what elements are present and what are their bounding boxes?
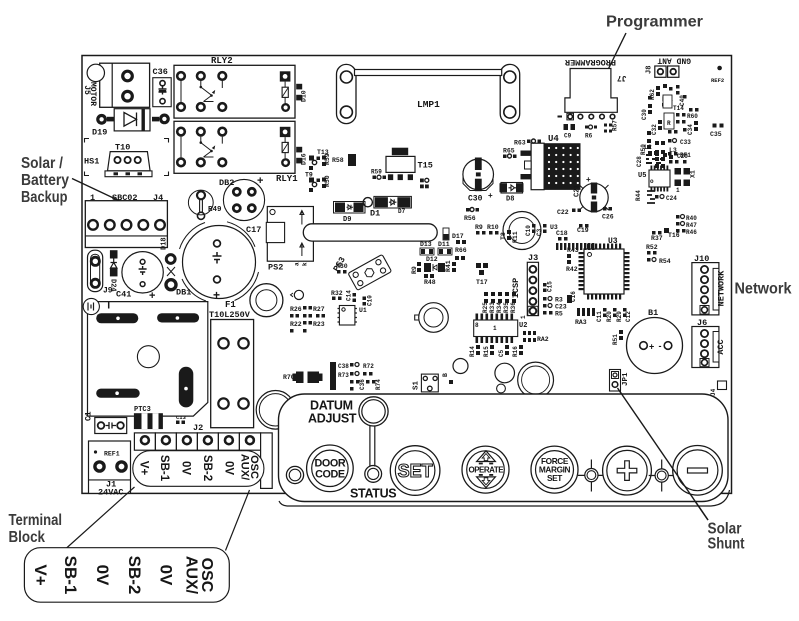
connector J6 ACC [692, 318, 726, 368]
svg-text:R36: R36 [510, 302, 517, 313]
svg-text:C13: C13 [176, 414, 187, 421]
svg-text:LMP1: LMP1 [417, 99, 440, 110]
svg-text:C10: C10 [367, 295, 374, 306]
svg-text:R46: R46 [686, 229, 697, 236]
svg-text:C30: C30 [468, 195, 483, 204]
capacitor C18 [363, 295, 374, 306]
capacitor C26 [602, 207, 614, 221]
svg-text:JP1: JP1 [622, 372, 630, 386]
diode D10 [296, 84, 307, 102]
diode D8 [500, 183, 524, 204]
svg-text:ADJUST: ADJUST [308, 412, 357, 426]
misc pads rf extra [647, 95, 699, 164]
svg-text:C32: C32 [651, 124, 658, 135]
svg-text:D18: D18 [161, 237, 169, 250]
resistors R40 R47 R46 [676, 215, 697, 237]
IC U5 [638, 166, 670, 192]
leader line solar shunt over panel [618, 388, 709, 520]
svg-text:T14: T14 [673, 105, 684, 112]
connector J7 PROGRAMMER [558, 57, 627, 120]
svg-text:R49: R49 [208, 206, 222, 214]
diode bridge DB2 [219, 175, 265, 221]
BUTTON PANEL [279, 394, 730, 506]
svg-text:NETWORK: NETWORK [717, 270, 727, 307]
svg-text:R50: R50 [324, 175, 331, 187]
resistor R6 [585, 125, 597, 140]
capacitor C13 [176, 414, 187, 424]
terminal block label strip (on board) [133, 451, 264, 487]
diode D24 [109, 250, 118, 291]
svg-text:1: 1 [520, 315, 527, 319]
relay RLY1 [174, 121, 298, 184]
svg-text:R66: R66 [455, 247, 467, 254]
svg-text:R74: R74 [375, 379, 382, 390]
svg-text:C11: C11 [596, 311, 603, 322]
svg-text:R54: R54 [659, 258, 671, 265]
svg-text:D8: D8 [506, 196, 514, 204]
switch S1 [413, 374, 439, 392]
svg-text:C3: C3 [536, 228, 543, 236]
capacitor C31 [574, 175, 609, 213]
svg-text:SET: SET [547, 473, 562, 483]
svg-text:T15: T15 [418, 161, 433, 171]
svg-text:SET: SET [398, 461, 433, 481]
inductors L2 L3 C20 C28 [636, 144, 688, 167]
svg-text:C20: C20 [677, 153, 688, 160]
connector J9 [88, 250, 113, 295]
button FORCE MARGIN SET [531, 446, 578, 493]
svg-text:DATUM: DATUM [310, 399, 353, 413]
svg-text:U1: U1 [359, 307, 367, 314]
buzzer B1 [627, 308, 683, 374]
connector J10 NETWORK [692, 254, 727, 315]
button DOOR CODE [286, 445, 353, 492]
svg-text:C9: C9 [564, 133, 572, 140]
svg-text:C1: C1 [85, 411, 94, 421]
svg-text:R3: R3 [555, 297, 563, 304]
svg-text:V+: V+ [31, 564, 50, 585]
svg-text:RLY2: RLY2 [211, 56, 233, 66]
connector J5 MOTOR [82, 63, 150, 107]
capacitor C9 [564, 124, 576, 140]
svg-text:D9: D9 [343, 216, 351, 224]
resistor R70 [283, 372, 323, 384]
svg-text:R32: R32 [331, 290, 343, 297]
capacitor C22 [557, 209, 581, 217]
resistor R52 R54 [646, 244, 671, 265]
svg-text:Shunt: Shunt [708, 536, 745, 553]
resistor R58 [332, 154, 356, 166]
svg-text:C30: C30 [641, 109, 648, 120]
svg-text:OPERATE: OPERATE [469, 465, 505, 474]
relay RLY2 [174, 56, 295, 118]
svg-text:D19: D19 [92, 128, 107, 138]
svg-text:a: a [294, 262, 301, 266]
capacitor C17 [180, 222, 262, 302]
capacitor behind panel left edge [256, 391, 295, 430]
svg-text:D10: D10 [301, 90, 308, 102]
power supply PS2 [266, 207, 437, 273]
lamp bracket LMP1 [337, 64, 520, 123]
svg-text:C22: C22 [557, 209, 569, 216]
svg-text:+: + [586, 175, 591, 184]
svg-text:R60: R60 [687, 113, 698, 120]
svg-text:Programmer: Programmer [606, 14, 703, 31]
svg-text:J5: J5 [82, 85, 91, 95]
diode D9 [334, 202, 366, 225]
svg-text:RLY1: RLY1 [276, 174, 298, 184]
svg-text:REF1: REF1 [104, 451, 120, 458]
heatsink HS1 / transformer T10 [84, 139, 169, 177]
svg-text:T8: T8 [500, 232, 507, 240]
enlarged terminal block strip [24, 487, 249, 602]
button minus [673, 446, 723, 496]
svg-text:C15: C15 [547, 281, 554, 292]
svg-text:R27: R27 [313, 306, 325, 313]
transistor T15 [386, 148, 433, 180]
svg-text:X1: X1 [690, 170, 697, 178]
svg-text:R20: R20 [606, 311, 613, 322]
resistor R59b [371, 169, 386, 180]
svg-text:C36: C36 [153, 67, 168, 77]
svg-text:R9: R9 [475, 224, 483, 231]
svg-text:0V: 0V [180, 461, 192, 475]
svg-text:R16: R16 [512, 346, 519, 357]
svg-text:R29: R29 [616, 311, 623, 322]
svg-text:STATUS: STATUS [350, 487, 396, 501]
svg-text:D13: D13 [420, 241, 432, 248]
button OPERATE [462, 446, 509, 493]
crosshair node 2 [649, 460, 675, 492]
svg-text:R41: R41 [445, 260, 452, 272]
svg-text:HS1: HS1 [84, 157, 99, 167]
capacitor C14 [346, 290, 357, 302]
resistor array RA3 cluster [575, 308, 632, 345]
svg-text:J8: J8 [646, 66, 654, 74]
svg-text:Terminal: Terminal [9, 512, 63, 529]
resistor R65 [503, 148, 517, 159]
svg-text:Network: Network [735, 281, 792, 298]
svg-text:R9: R9 [411, 266, 418, 274]
resistor array RA2 [523, 331, 549, 343]
svg-text:PS2: PS2 [268, 263, 283, 273]
svg-text:C17: C17 [246, 225, 261, 235]
svg-text:1: 1 [676, 187, 680, 194]
capacitors C10 C3 U3ref R54 [525, 224, 558, 236]
svg-text:C23: C23 [555, 304, 567, 311]
svg-text:DB1: DB1 [176, 288, 191, 298]
diode D19 [92, 109, 168, 138]
svg-text:C19: C19 [577, 227, 589, 234]
diode D16 [296, 147, 307, 165]
svg-text:+: + [149, 290, 155, 302]
resistor cluster R26 R27 R22 R23 [290, 306, 325, 333]
svg-text:L3: L3 [669, 147, 677, 154]
svg-text:R10: R10 [487, 224, 499, 231]
microcontroller U3 (QFP) [556, 224, 630, 303]
svg-text:B: B [442, 373, 449, 377]
svg-text:R15: R15 [483, 346, 490, 357]
svg-text:J2: J2 [193, 423, 203, 433]
svg-text:U3: U3 [550, 224, 558, 231]
svg-text:D16: D16 [301, 153, 308, 165]
resistor cluster R14 R15 C5 R16 [469, 345, 523, 357]
svg-text:R23: R23 [313, 321, 325, 328]
transistor T17 cluster [475, 224, 519, 286]
svg-text:R5: R5 [555, 311, 563, 318]
small rings bottom center [442, 359, 553, 398]
resistor R63 [514, 139, 541, 147]
svg-text:R37: R37 [651, 235, 663, 242]
IC U2 DIP [474, 314, 528, 344]
svg-text:C10: C10 [525, 225, 532, 236]
svg-text:C21: C21 [574, 184, 582, 197]
svg-text:R47: R47 [686, 222, 697, 229]
svg-text:T10L250V: T10L250V [209, 310, 251, 320]
svg-text:k: k [302, 262, 309, 266]
svg-text:CODE: CODE [315, 469, 345, 481]
svg-text:Battery: Battery [21, 172, 69, 189]
svg-text:REF2: REF2 [711, 77, 724, 84]
header J3 ICSP [511, 253, 539, 319]
reference REF1 / connector J1 24VAC [89, 441, 131, 498]
svg-text:R: R [667, 120, 671, 127]
svg-text:RA3: RA3 [575, 319, 587, 326]
svg-text:T17: T17 [476, 279, 488, 286]
svg-text:D7: D7 [398, 208, 406, 215]
svg-text:C36: C36 [359, 379, 366, 390]
svg-text:PROGRAMMER: PROGRAMMER [564, 57, 616, 67]
svg-text:R72: R72 [363, 363, 374, 370]
svg-text:8: 8 [475, 322, 479, 329]
callout Terminal Block [9, 512, 63, 546]
svg-text:D17: D17 [452, 233, 464, 240]
svg-text:R51: R51 [612, 334, 619, 345]
svg-text:ACC: ACC [716, 339, 726, 354]
resistor R57 [604, 120, 619, 133]
svg-text:C24: C24 [666, 195, 677, 202]
svg-text:T16: T16 [668, 232, 680, 239]
DIP resistor network bottom of U3 [556, 243, 594, 250]
terminal header J2 [134, 423, 272, 488]
svg-text:Solar /: Solar / [21, 155, 64, 172]
svg-text:L2: L2 [644, 144, 652, 151]
svg-text:R56: R56 [464, 215, 476, 222]
LED STATUS [350, 466, 396, 501]
svg-text:Block: Block [9, 529, 46, 546]
svg-text:RA2: RA2 [537, 336, 549, 343]
capacitor C15 [543, 281, 554, 292]
svg-text:R40: R40 [686, 215, 697, 222]
IC U1 with passives [338, 306, 367, 326]
svg-text:o: o [650, 178, 654, 185]
callout Solar Shunt [618, 388, 745, 553]
svg-text:R22: R22 [290, 321, 302, 328]
svg-text:R48: R48 [424, 279, 436, 286]
corner pad J4b [710, 381, 727, 396]
diode D18 [161, 237, 176, 263]
svg-text:PTC3: PTC3 [134, 406, 151, 414]
svg-text:SB-2: SB-2 [201, 455, 213, 481]
svg-text:C41: C41 [116, 290, 131, 300]
svg-text:24VAC: 24VAC [98, 488, 124, 498]
svg-text:U4: U4 [548, 134, 559, 144]
svg-text:R73: R73 [338, 372, 349, 379]
connector J8 GND ANT [646, 56, 692, 78]
resistor R78 / C38 cluster [330, 362, 382, 391]
diode D5 pads [420, 178, 429, 188]
jumper JP1 (solar shunt) [610, 370, 631, 392]
svg-text:T9: T9 [305, 172, 313, 179]
button SET [390, 446, 440, 496]
svg-text:0V: 0V [93, 565, 112, 586]
svg-text:C14: C14 [346, 290, 353, 301]
crystal X1 [675, 168, 697, 194]
svg-text:D12: D12 [426, 256, 438, 263]
svg-text:C28: C28 [636, 156, 643, 167]
svg-text:C38: C38 [338, 363, 349, 370]
fuse F1 T10L250V [209, 300, 254, 428]
power supply PS3 [331, 254, 391, 290]
capacitor ring with notch [291, 290, 304, 299]
IC U4 (black grid module) [521, 134, 581, 190]
svg-text:V+: V+ [138, 461, 150, 476]
fiducial REF2 [711, 66, 724, 84]
svg-text:SB-1: SB-1 [158, 455, 170, 482]
svg-text:1: 1 [493, 325, 497, 332]
crosshair node 1 [578, 460, 605, 492]
svg-text:D1: D1 [370, 209, 380, 219]
PCB board outline [82, 56, 732, 494]
svg-text:J7: J7 [617, 73, 627, 82]
svg-text:OSC: OSC [248, 455, 260, 479]
svg-text:J3: J3 [528, 253, 538, 263]
svg-text:R35: R35 [503, 302, 510, 313]
svg-text:OSC: OSC [198, 558, 215, 593]
svg-text:R33: R33 [489, 302, 496, 313]
svg-text:AUX/: AUX/ [182, 556, 199, 595]
svg-text:R52: R52 [646, 244, 658, 251]
svg-text:R25: R25 [482, 302, 489, 313]
capacitor C24 / resistor R44 [635, 190, 677, 203]
thermistor PTC3 [134, 406, 163, 429]
mounting ring mid [415, 303, 449, 333]
svg-text:SB-2: SB-2 [125, 556, 144, 595]
svg-text:R11: R11 [512, 231, 519, 243]
diode cluster D13 D11 R66 D17 [420, 228, 467, 260]
callout Solar / Battery Backup [21, 155, 146, 214]
button plus [603, 446, 652, 495]
capacitor C41 [116, 252, 163, 302]
svg-text:R59: R59 [371, 169, 382, 176]
svg-text:R57: R57 [612, 120, 619, 131]
resistor cluster R3 C23 R5 [543, 297, 567, 318]
resistor R32 [331, 290, 343, 300]
svg-text:B1: B1 [648, 308, 658, 318]
svg-text:R14: R14 [469, 346, 476, 357]
svg-text:S1: S1 [413, 380, 421, 390]
capacitor symbol node [83, 298, 108, 314]
svg-text:C5: C5 [498, 349, 505, 357]
resistor R49 [188, 190, 222, 219]
svg-text:+: + [213, 288, 220, 302]
svg-text:C33: C33 [680, 139, 691, 146]
diode D1 [363, 196, 411, 218]
svg-text:+: + [488, 191, 493, 200]
svg-text:R26: R26 [290, 306, 302, 313]
svg-text:C35: C35 [710, 131, 722, 138]
svg-text:GND ANT: GND ANT [657, 56, 691, 65]
label DATUM ADJUST [308, 397, 388, 467]
svg-text:D11: D11 [438, 241, 450, 248]
svg-text:Backup: Backup [21, 189, 68, 206]
svg-text:0V: 0V [222, 461, 234, 475]
svg-text:R42: R42 [566, 266, 578, 273]
svg-text:R44: R44 [635, 190, 642, 201]
capacitor C1 [85, 411, 127, 433]
svg-text:R58: R58 [332, 157, 344, 164]
capacitor C35 [710, 124, 724, 139]
transformer block T? [88, 302, 208, 417]
capacitor C30 [463, 158, 494, 204]
svg-text:C26: C26 [602, 214, 614, 221]
capacitor C36 [153, 67, 172, 107]
svg-text:SB-1: SB-1 [61, 556, 80, 595]
svg-text:R59: R59 [324, 153, 331, 165]
transistor T9 / resistor R50 cluster [305, 172, 331, 193]
svg-text:0V: 0V [157, 565, 176, 586]
connector J4 SBC02 (solar/battery backup) [85, 193, 167, 248]
diode bridge DB1 [166, 267, 191, 298]
svg-text:R30: R30 [336, 263, 348, 270]
svg-text:C18: C18 [556, 230, 568, 237]
resistor R37 T16 [651, 228, 680, 242]
svg-text:+: + [649, 342, 654, 352]
svg-text:R63: R63 [514, 140, 526, 147]
RF section cluster R62 C39 R61 C40 T14 R58 R60 C34 C33 RF1 [640, 84, 698, 168]
svg-text:U5: U5 [638, 172, 646, 180]
resistor R56 [464, 208, 479, 223]
svg-text:R34: R34 [496, 302, 503, 313]
diode D12 cluster [411, 256, 456, 286]
transistor T13 / resistor R59 cluster [309, 149, 331, 170]
resistor R30 [336, 263, 348, 274]
svg-text:U2: U2 [519, 322, 527, 330]
electrolytic ring big [250, 284, 283, 317]
callout Network [735, 281, 792, 298]
resistor cluster R25 R33 R34 R35 R36 [482, 292, 517, 313]
svg-text:R6: R6 [585, 133, 593, 140]
svg-text:F1: F1 [225, 300, 236, 310]
svg-text:-: - [659, 341, 662, 351]
callout Programmer [598, 14, 703, 92]
svg-text:C34: C34 [687, 124, 694, 135]
inductor ring (toroid) [503, 212, 541, 250]
